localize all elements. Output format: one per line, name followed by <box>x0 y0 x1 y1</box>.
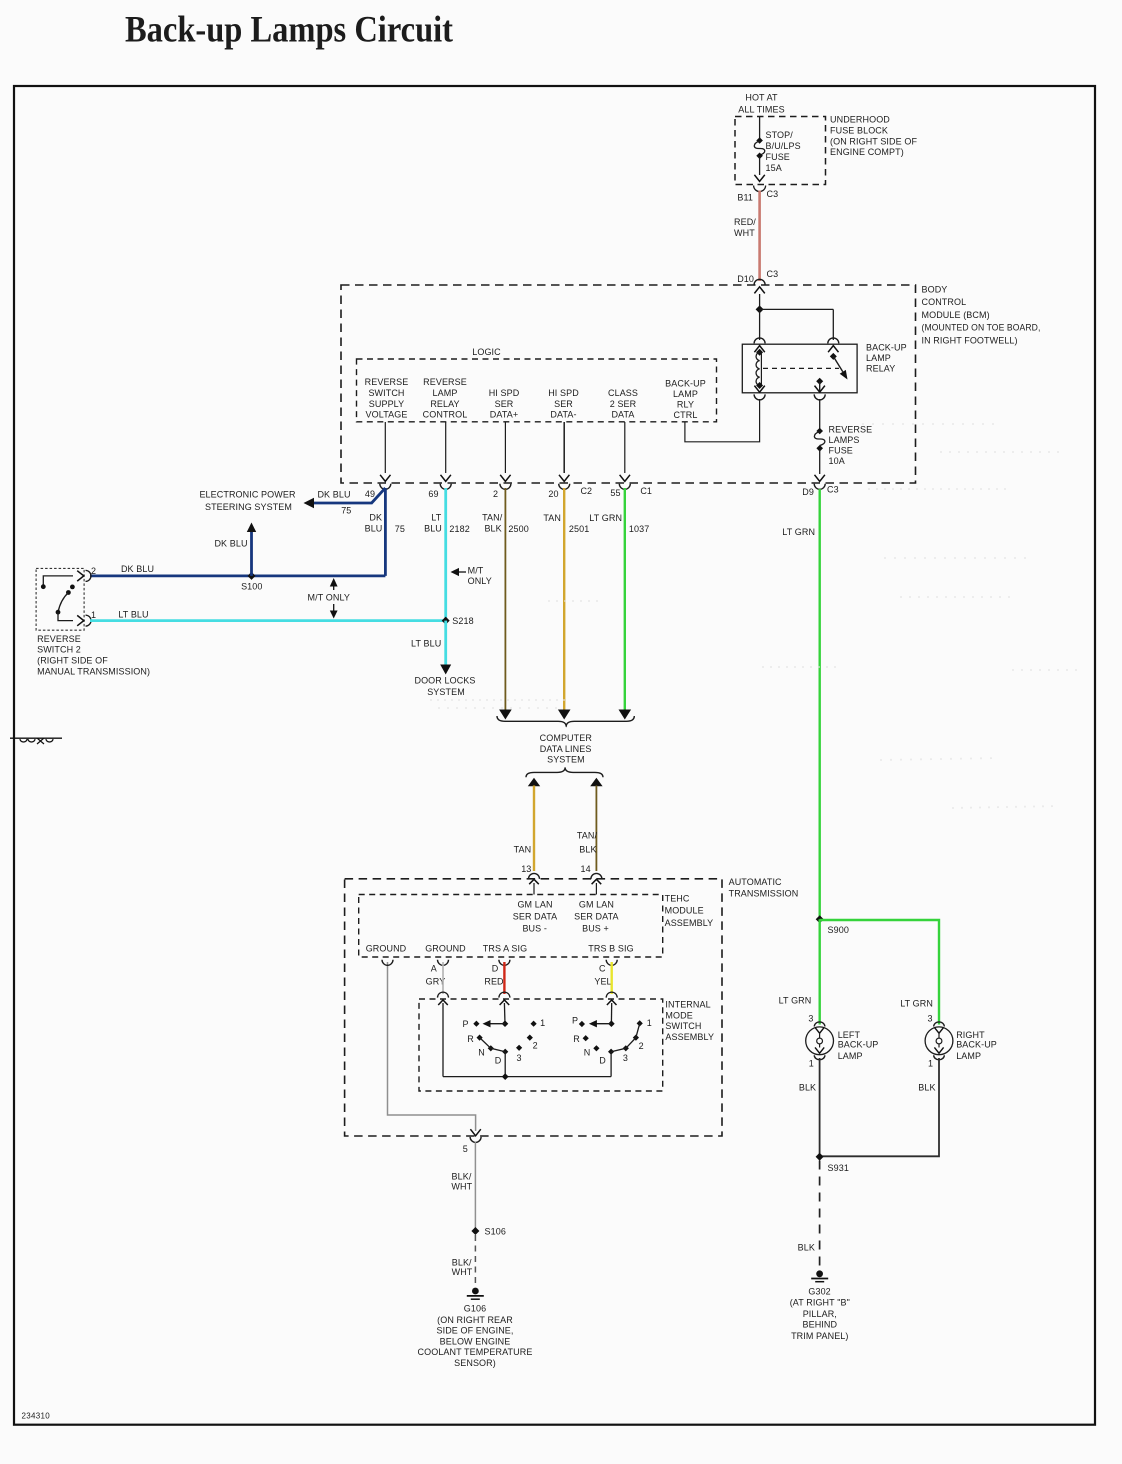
svg-text:49: 49 <box>365 489 375 499</box>
wire LT BLU horizontal from reverse switch pin 1 <box>90 610 446 621</box>
svg-text:LT GRN: LT GRN <box>782 527 815 537</box>
svg-text:10A: 10A <box>829 456 845 466</box>
relay switch contact <box>816 353 847 393</box>
svg-text:BLK/: BLK/ <box>452 1171 472 1181</box>
svg-text:SER: SER <box>554 399 573 409</box>
svg-text:G106: G106 <box>464 1304 486 1314</box>
svg-text:2: 2 <box>639 1041 644 1051</box>
wire TAN/BLK 2500 from pin 2 <box>482 488 529 720</box>
wire LT GRN branch to right lamp <box>820 920 939 1025</box>
svg-text:14: 14 <box>580 864 590 874</box>
TEHC pin label GM LAN SER DATA BUS + <box>574 899 618 933</box>
svg-text:SENSOR): SENSOR) <box>454 1358 496 1368</box>
svg-text:UNDERHOOD: UNDERHOOD <box>830 115 890 125</box>
svg-text:BLK/: BLK/ <box>452 1257 472 1267</box>
wire pin 20 drop <box>548 422 592 499</box>
svg-text:HI SPD: HI SPD <box>548 388 579 398</box>
reverse switch 2 box <box>36 568 150 676</box>
fuse F1 STOP/B/U/LPS FUSE 15A <box>754 117 800 182</box>
svg-text:REVERSE: REVERSE <box>423 377 467 387</box>
svg-text:C1: C1 <box>640 486 652 496</box>
svg-text:BEHIND: BEHIND <box>802 1320 837 1330</box>
svg-text:DK: DK <box>369 512 382 522</box>
svg-text:LT GRN: LT GRN <box>779 996 812 1006</box>
svg-text:S100: S100 <box>241 581 262 591</box>
svg-text:BLK: BLK <box>799 1083 816 1093</box>
svg-text:1: 1 <box>809 1059 814 1069</box>
BCM pin label: reverse switch supply voltage <box>365 377 409 420</box>
svg-text:IN RIGHT FOOTWELL): IN RIGHT FOOTWELL) <box>922 336 1018 346</box>
svg-text:BELOW ENGINE: BELOW ENGINE <box>440 1336 511 1346</box>
svg-text:55: 55 <box>610 488 620 498</box>
wire RED/WHT <box>734 191 760 282</box>
ground G106 <box>418 1288 533 1368</box>
wire LT GRN to left lamp <box>779 919 933 1024</box>
wire DK BLU branch up from S100 <box>214 523 256 576</box>
wire D10 feed inside BCM <box>754 294 839 352</box>
automatic transmission box <box>345 877 799 1136</box>
reverse switch pin 1 connector <box>77 610 96 626</box>
svg-text:234310: 234310 <box>22 1412 51 1421</box>
svg-text:BLK: BLK <box>579 845 596 855</box>
svg-text:ASSEMBLY: ASSEMBLY <box>665 1032 714 1042</box>
svg-text:2182: 2182 <box>449 524 469 534</box>
svg-text:2 SER: 2 SER <box>610 399 637 409</box>
wire BLK right lamp to S931 <box>821 1058 939 1156</box>
IMS left rotary switch <box>443 1003 545 1077</box>
internal mode switch assembly box <box>419 999 714 1091</box>
wire relay control to RLY CTRL <box>685 399 760 442</box>
wire TAN 2501 from pin 20 <box>543 488 589 720</box>
svg-text:S106: S106 <box>485 1226 506 1236</box>
svg-text:C: C <box>599 964 606 974</box>
svg-text:TEHC: TEHC <box>665 893 690 903</box>
svg-text:LAMP: LAMP <box>433 388 458 398</box>
BCM pin label: back-up lamp rly ctrl <box>665 378 706 420</box>
node S931 <box>816 1153 849 1173</box>
svg-text:WHT: WHT <box>452 1267 473 1277</box>
svg-text:ENGINE COMPT): ENGINE COMPT) <box>830 147 904 157</box>
svg-text:BACK-UP: BACK-UP <box>838 1039 879 1049</box>
svg-text:3: 3 <box>517 1053 522 1063</box>
svg-text:SUPPLY: SUPPLY <box>369 399 404 409</box>
faint scan noise <box>430 424 1080 808</box>
svg-text:RLY: RLY <box>677 399 694 409</box>
svg-text:BLK: BLK <box>798 1243 815 1253</box>
wire pin 55 drop <box>610 422 652 498</box>
svg-text:1: 1 <box>647 1018 652 1028</box>
svg-text:BLK: BLK <box>484 523 501 533</box>
M/T ONLY double arrow left <box>308 578 350 619</box>
relay label <box>866 342 907 373</box>
svg-text:DK BLU: DK BLU <box>317 489 350 499</box>
svg-text:MODULE (BCM): MODULE (BCM) <box>922 310 990 320</box>
svg-text:1: 1 <box>91 610 96 620</box>
svg-text:N: N <box>478 1048 485 1058</box>
wire pin 69 drop <box>428 422 451 499</box>
svg-text:TAN/: TAN/ <box>577 831 598 841</box>
svg-text:BUS -: BUS - <box>522 924 547 934</box>
svg-text:15A: 15A <box>766 163 782 173</box>
svg-text:FUSE: FUSE <box>766 152 790 162</box>
svg-text:P: P <box>462 1019 468 1029</box>
svg-text:REVERSE: REVERSE <box>37 634 81 644</box>
svg-text:BODY: BODY <box>922 284 948 294</box>
svg-text:GROUND: GROUND <box>366 943 407 953</box>
svg-text:RED/: RED/ <box>734 217 756 227</box>
relay K1 back-up lamp relay box <box>742 344 857 393</box>
svg-text:RELAY: RELAY <box>866 363 895 373</box>
scan artifact mark left edge <box>10 738 62 744</box>
svg-text:TRANSMISSION: TRANSMISSION <box>729 888 799 898</box>
svg-text:LAMPS: LAMPS <box>829 435 860 445</box>
svg-text:STOP/: STOP/ <box>766 130 794 140</box>
svg-text:ELECTRONIC POWER: ELECTRONIC POWER <box>199 489 296 499</box>
svg-text:C3: C3 <box>827 484 839 494</box>
svg-text:DK BLU: DK BLU <box>121 564 154 574</box>
svg-text:TRIM PANEL): TRIM PANEL) <box>791 1331 848 1341</box>
TEHC bottom labels <box>366 943 634 953</box>
connector C3 pin D10 <box>737 269 778 293</box>
svg-text:5: 5 <box>463 1144 468 1154</box>
svg-text:DATA: DATA <box>611 410 634 420</box>
TEHC pin label GM LAN SER DATA BUS - <box>513 899 557 933</box>
underhood fuse block box <box>735 92 826 184</box>
svg-text:BUS +: BUS + <box>582 924 609 934</box>
relay internal dashed link <box>763 367 839 369</box>
node S900 <box>816 915 849 935</box>
connector C3 pin D9 <box>802 475 838 497</box>
wire pin 2 drop <box>493 422 511 499</box>
svg-text:COOLANT TEMPERATURE: COOLANT TEMPERATURE <box>418 1347 533 1357</box>
svg-text:LAMP: LAMP <box>956 1051 981 1061</box>
svg-text:D: D <box>599 1056 606 1066</box>
svg-text:2: 2 <box>493 489 498 499</box>
TEHC module assembly box <box>359 893 714 957</box>
node electronic power steering system <box>199 489 296 512</box>
IMS right rotary switch <box>572 1003 652 1077</box>
svg-text:20: 20 <box>548 489 558 499</box>
svg-text:YEL: YEL <box>594 976 611 986</box>
wire TAN/BLK 14 up to data lines <box>577 778 603 895</box>
bus bracket lower (from computer data lines) <box>526 767 603 777</box>
svg-text:LAMP: LAMP <box>866 353 891 363</box>
svg-text:C2: C2 <box>580 486 592 496</box>
svg-text:GROUND: GROUND <box>425 943 466 953</box>
svg-text:CONTROL: CONTROL <box>922 297 967 307</box>
BCM box (body control module) <box>341 284 1041 483</box>
svg-text:A: A <box>431 964 437 974</box>
svg-text:RED: RED <box>484 976 504 986</box>
TEHC pin A GRY wire <box>426 960 449 1005</box>
wire BLK dashed to G302 <box>798 1161 820 1271</box>
underhood fuse block label <box>830 115 917 158</box>
svg-text:BLU: BLU <box>424 523 442 533</box>
svg-text:R: R <box>573 1034 580 1044</box>
ground G302 <box>790 1270 850 1341</box>
svg-text:D9: D9 <box>802 487 814 497</box>
svg-text:HI SPD: HI SPD <box>489 388 520 398</box>
svg-text:P: P <box>572 1015 578 1025</box>
svg-text:DK BLU: DK BLU <box>214 538 247 548</box>
wire pin 49 drop <box>365 422 391 499</box>
svg-text:SWITCH: SWITCH <box>368 388 404 398</box>
svg-text:Back-up Lamps Circuit: Back-up Lamps Circuit <box>125 10 454 51</box>
svg-text:LAMP: LAMP <box>673 389 698 399</box>
svg-text:SER: SER <box>495 399 514 409</box>
svg-text:CONTROL: CONTROL <box>423 410 468 420</box>
svg-text:S900: S900 <box>828 925 849 935</box>
svg-text:MODE: MODE <box>665 1010 692 1020</box>
svg-text:SER DATA: SER DATA <box>574 912 618 922</box>
left back-up lamp <box>806 1014 879 1069</box>
svg-text:S931: S931 <box>828 1163 849 1173</box>
svg-text:PILLAR,: PILLAR, <box>803 1309 837 1319</box>
node S100 <box>241 572 262 591</box>
svg-text:INTERNAL: INTERNAL <box>665 1000 710 1010</box>
svg-text:(MOUNTED ON TOE BOARD,: (MOUNTED ON TOE BOARD, <box>922 323 1041 333</box>
connector C3 pin B11 <box>737 186 778 203</box>
relay lower pins <box>754 386 825 400</box>
svg-text:SER DATA: SER DATA <box>513 912 557 922</box>
BCM pin label: hi spd ser data+ <box>489 388 520 420</box>
svg-text:N: N <box>584 1047 591 1057</box>
wire DK BLU horizontal run to reverse switch <box>90 564 385 576</box>
svg-text:LT BLU: LT BLU <box>118 610 148 620</box>
reverse switch 2 contacts <box>41 576 75 621</box>
svg-text:TRS B SIG: TRS B SIG <box>588 943 633 953</box>
fuse reverse lamps 10A <box>814 399 872 474</box>
svg-text:D10: D10 <box>737 274 754 284</box>
wire BLK left lamp to S931 <box>799 1058 820 1157</box>
reverse switch pin 2 connector <box>77 566 96 582</box>
svg-text:S218: S218 <box>452 616 473 626</box>
bus bracket upper (into computer data lines) <box>497 716 634 727</box>
LOGIC box <box>357 347 717 422</box>
svg-text:1037: 1037 <box>629 524 649 534</box>
svg-text:SWITCH: SWITCH <box>665 1021 701 1031</box>
wire LT GRN from D9 down <box>782 489 819 919</box>
svg-text:75: 75 <box>341 505 351 515</box>
svg-text:SWITCH 2: SWITCH 2 <box>37 645 81 655</box>
svg-text:M/T ONLY: M/T ONLY <box>308 592 350 602</box>
svg-text:C3: C3 <box>767 269 779 279</box>
wire BLK/WHT to S106 <box>451 1142 475 1229</box>
svg-text:BLU: BLU <box>365 523 383 533</box>
svg-text:LT GRN: LT GRN <box>589 513 622 523</box>
svg-text:DATA+: DATA+ <box>490 410 518 420</box>
svg-text:AUTOMATIC: AUTOMATIC <box>729 877 782 887</box>
svg-text:BACK-UP: BACK-UP <box>866 342 907 352</box>
TEHC pin C YEL wire <box>594 960 617 1005</box>
svg-text:1: 1 <box>928 1059 933 1069</box>
BCM pin label: reverse lamp relay control <box>423 377 468 420</box>
wire DK BLU 75 branch to EPS <box>304 488 386 515</box>
svg-text:TAN: TAN <box>514 845 532 855</box>
svg-text:(ON RIGHT REAR: (ON RIGHT REAR <box>437 1315 513 1325</box>
BCM pin label: hi spd ser data- <box>548 388 579 420</box>
svg-text:D: D <box>492 964 499 974</box>
svg-text:GM LAN: GM LAN <box>517 899 552 909</box>
svg-text:MANUAL TRANSMISSION): MANUAL TRANSMISSION) <box>37 666 150 676</box>
relay coil <box>756 349 763 389</box>
svg-text:GM LAN: GM LAN <box>579 899 614 909</box>
svg-text:LOGIC: LOGIC <box>472 347 501 357</box>
svg-text:DATA-: DATA- <box>550 410 576 420</box>
svg-text:TAN: TAN <box>543 513 561 523</box>
svg-text:R: R <box>467 1034 474 1044</box>
svg-text:SYSTEM: SYSTEM <box>427 687 465 697</box>
right back-up lamp <box>925 1014 997 1069</box>
svg-text:SIDE OF ENGINE,: SIDE OF ENGINE, <box>436 1326 513 1336</box>
wire BLK/WHT dashed to G106 <box>452 1235 476 1288</box>
svg-text:LT BLU: LT BLU <box>411 639 441 649</box>
svg-text:COMPUTER: COMPUTER <box>540 733 593 743</box>
svg-text:SYSTEM: SYSTEM <box>547 755 585 765</box>
svg-text:VOLTAGE: VOLTAGE <box>366 410 408 420</box>
svg-text:DATA LINES: DATA LINES <box>540 744 592 754</box>
wire TAN 13 up to data lines <box>514 778 541 895</box>
svg-text:REVERSE: REVERSE <box>365 377 409 387</box>
svg-text:(ON RIGHT SIDE OF: (ON RIGHT SIDE OF <box>830 136 917 146</box>
svg-text:B/U/LPS: B/U/LPS <box>766 141 801 151</box>
svg-text:(AT RIGHT "B": (AT RIGHT "B" <box>790 1298 850 1308</box>
svg-text:FUSE: FUSE <box>829 445 853 455</box>
svg-text:DOOR LOCKS: DOOR LOCKS <box>414 676 475 686</box>
svg-text:2500: 2500 <box>508 524 528 534</box>
svg-text:2501: 2501 <box>569 524 589 534</box>
node S106 <box>471 1226 506 1236</box>
svg-text:WHT: WHT <box>451 1181 472 1191</box>
svg-text:CLASS: CLASS <box>608 388 638 398</box>
M/T ONLY arrow right <box>451 565 492 586</box>
wire LT BLU to door locks <box>411 621 451 675</box>
wire LT GRN 1037 from pin 55 <box>589 488 649 720</box>
svg-text:B11: B11 <box>737 193 753 203</box>
svg-text:2: 2 <box>533 1040 538 1050</box>
BCM pin label: class 2 ser data <box>608 388 638 420</box>
wire LT BLU 2182 vertical from pin 69 <box>424 488 470 621</box>
svg-text:BACK-UP: BACK-UP <box>956 1039 997 1049</box>
svg-text:BACK-UP: BACK-UP <box>665 378 706 388</box>
svg-text:TAN/: TAN/ <box>482 512 503 522</box>
svg-text:TRS A SIG: TRS A SIG <box>483 943 527 953</box>
svg-text:BLK: BLK <box>918 1083 935 1093</box>
svg-text:WHT: WHT <box>734 228 755 238</box>
IMS common bus wire <box>443 1073 611 1080</box>
svg-text:LT GRN: LT GRN <box>900 999 933 1009</box>
svg-text:69: 69 <box>428 489 438 499</box>
wire DK BLU 75 vertical <box>365 488 405 576</box>
svg-text:ONLY: ONLY <box>468 576 492 586</box>
svg-text:D: D <box>495 1056 502 1066</box>
svg-text:LAMP: LAMP <box>838 1051 863 1061</box>
wire ground run to pin 5 <box>382 960 481 1154</box>
svg-text:1: 1 <box>540 1018 545 1028</box>
svg-text:3: 3 <box>928 1014 933 1024</box>
svg-text:13: 13 <box>521 864 531 874</box>
svg-text:FUSE BLOCK: FUSE BLOCK <box>830 126 888 136</box>
node door locks system <box>414 676 475 698</box>
svg-text:ALL TIMES: ALL TIMES <box>738 105 784 115</box>
svg-text:RELAY: RELAY <box>430 399 459 409</box>
node S218 <box>442 616 474 626</box>
svg-text:STEERING SYSTEM: STEERING SYSTEM <box>205 502 292 512</box>
svg-text:HOT AT: HOT AT <box>745 92 778 102</box>
svg-text:ASSEMBLY: ASSEMBLY <box>665 918 714 928</box>
svg-text:REVERSE: REVERSE <box>829 424 873 434</box>
svg-text:G302: G302 <box>808 1287 830 1297</box>
svg-text:CTRL: CTRL <box>674 410 698 420</box>
svg-text:MODULE: MODULE <box>665 906 704 916</box>
svg-text:C3: C3 <box>767 189 779 199</box>
svg-text:3: 3 <box>623 1053 628 1063</box>
svg-text:75: 75 <box>395 524 405 534</box>
TEHC pin D RED wire <box>484 960 510 1005</box>
svg-text:M/T: M/T <box>468 565 484 575</box>
svg-text:LT: LT <box>431 512 441 522</box>
svg-text:(RIGHT SIDE OF: (RIGHT SIDE OF <box>37 656 108 666</box>
svg-text:2: 2 <box>91 566 96 576</box>
svg-text:3: 3 <box>808 1014 813 1024</box>
node computer data lines system <box>540 733 593 765</box>
